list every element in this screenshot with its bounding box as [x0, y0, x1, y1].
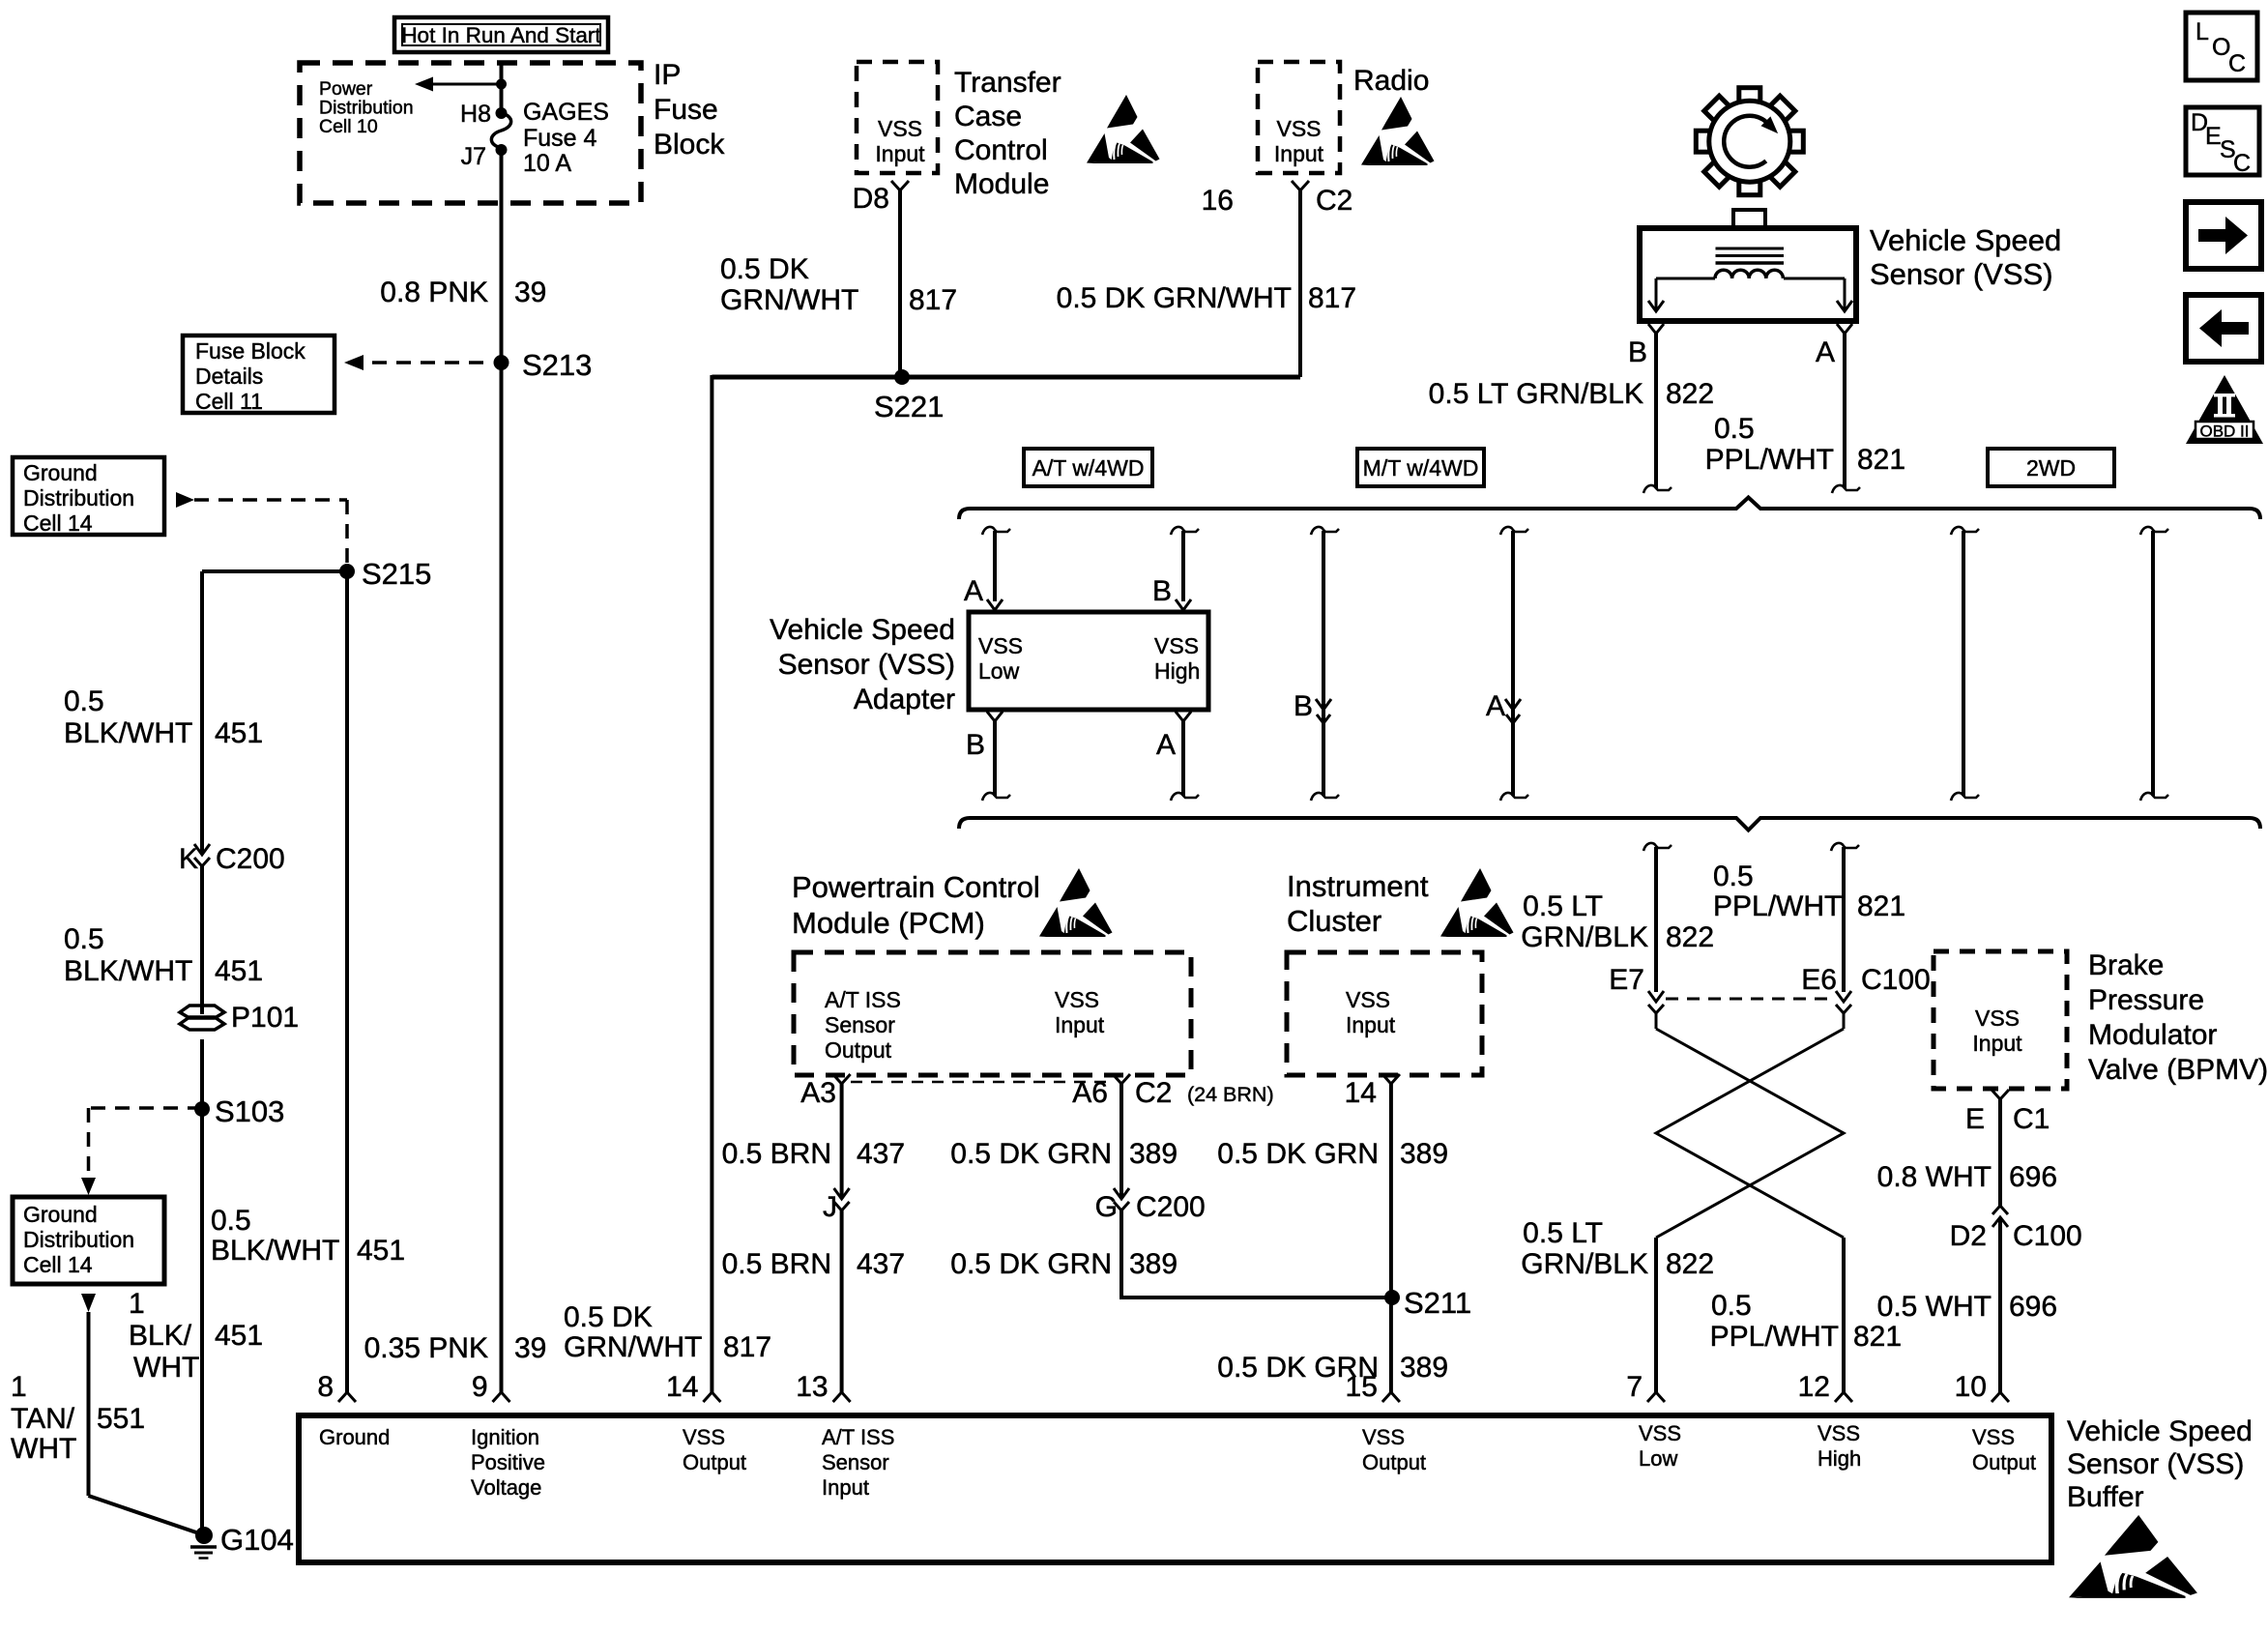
- svg-text:Input: Input: [822, 1475, 869, 1500]
- svg-text:Input: Input: [1055, 1012, 1105, 1037]
- svg-text:C2: C2: [1135, 1077, 1172, 1109]
- svg-text:WHT: WHT: [11, 1433, 76, 1465]
- svg-text:PPL/WHT: PPL/WHT: [1713, 890, 1842, 922]
- svg-text:Cell 14: Cell 14: [23, 510, 93, 536]
- svg-text:BLK/WHT: BLK/WHT: [64, 955, 192, 987]
- svg-text:Radio: Radio: [1353, 65, 1429, 97]
- svg-text:Cell 14: Cell 14: [23, 1252, 93, 1277]
- svg-text:Input: Input: [1346, 1012, 1396, 1037]
- svg-text:H8: H8: [460, 101, 491, 128]
- svg-text:14: 14: [1345, 1077, 1377, 1109]
- svg-text:G: G: [1095, 1191, 1118, 1223]
- svg-text:437: 437: [857, 1138, 905, 1170]
- svg-text:451: 451: [357, 1235, 405, 1267]
- svg-text:WHT: WHT: [133, 1352, 199, 1384]
- svg-text:S221: S221: [874, 390, 944, 423]
- svg-text:VSS: VSS: [1154, 633, 1199, 658]
- svg-text:A: A: [1816, 336, 1835, 368]
- svg-text:0.5 DK GRN/WHT: 0.5 DK GRN/WHT: [1057, 282, 1292, 314]
- svg-text:0.5 DK: 0.5 DK: [720, 253, 809, 285]
- svg-text:389: 389: [1400, 1352, 1448, 1384]
- svg-text:Buffer: Buffer: [2067, 1481, 2144, 1513]
- svg-text:696: 696: [2009, 1161, 2057, 1193]
- svg-text:High: High: [1817, 1446, 1861, 1471]
- svg-text:0.5: 0.5: [211, 1205, 251, 1237]
- svg-text:0.35 PNK: 0.35 PNK: [364, 1332, 488, 1364]
- svg-text:Control: Control: [954, 134, 1048, 166]
- svg-text:E7: E7: [1609, 964, 1644, 996]
- svg-text:13: 13: [796, 1371, 828, 1403]
- svg-text:Sensor (VSS): Sensor (VSS): [1870, 257, 2053, 291]
- svg-text:BLK/WHT: BLK/WHT: [64, 717, 192, 749]
- svg-text:Pressure: Pressure: [2088, 984, 2204, 1016]
- svg-text:K: K: [179, 843, 198, 875]
- svg-text:Distribution: Distribution: [23, 1227, 134, 1252]
- svg-text:TAN/: TAN/: [11, 1403, 75, 1435]
- svg-text:PPL/WHT: PPL/WHT: [1705, 444, 1834, 476]
- svg-text:Ignition: Ignition: [471, 1425, 539, 1449]
- svg-text:BLK/: BLK/: [129, 1320, 192, 1352]
- svg-text:16: 16: [1202, 185, 1234, 217]
- svg-text:451: 451: [215, 1320, 263, 1352]
- svg-text:9: 9: [472, 1371, 488, 1403]
- svg-text:0.5 DK GRN: 0.5 DK GRN: [950, 1138, 1112, 1170]
- svg-text:L: L: [2195, 18, 2209, 45]
- svg-text:821: 821: [1857, 890, 1905, 922]
- svg-text:S211: S211: [1404, 1286, 1471, 1320]
- svg-text:0.5 DK GRN: 0.5 DK GRN: [1217, 1138, 1379, 1170]
- svg-text:A: A: [1486, 690, 1505, 722]
- svg-text:0.5 LT: 0.5 LT: [1523, 890, 1603, 922]
- svg-text:PPL/WHT: PPL/WHT: [1710, 1321, 1839, 1353]
- svg-text:C: C: [2228, 50, 2246, 77]
- svg-text:2WD: 2WD: [2026, 455, 2076, 481]
- svg-text:C200: C200: [216, 843, 285, 875]
- svg-text:M/T w/4WD: M/T w/4WD: [1363, 455, 1479, 481]
- svg-text:0.8 WHT: 0.8 WHT: [1877, 1161, 1992, 1193]
- svg-text:GRN/BLK: GRN/BLK: [1521, 921, 1648, 953]
- svg-text:C1: C1: [2013, 1103, 2050, 1135]
- svg-text:437: 437: [857, 1248, 905, 1280]
- svg-text:B: B: [966, 729, 985, 761]
- svg-text:A3: A3: [800, 1077, 836, 1109]
- svg-text:C100: C100: [2013, 1220, 2082, 1252]
- svg-text:Ground: Ground: [23, 1202, 98, 1227]
- svg-text:Input: Input: [875, 141, 925, 166]
- svg-text:0.5: 0.5: [64, 923, 104, 955]
- svg-text:C100: C100: [1861, 964, 1931, 996]
- svg-text:A/T ISS: A/T ISS: [822, 1425, 894, 1449]
- svg-text:451: 451: [215, 717, 263, 749]
- svg-text:822: 822: [1666, 378, 1714, 410]
- svg-text:VSS: VSS: [1972, 1425, 2015, 1449]
- svg-text:0.5 BRN: 0.5 BRN: [722, 1138, 831, 1170]
- svg-text:0.8 PNK: 0.8 PNK: [380, 277, 488, 308]
- svg-text:822: 822: [1666, 921, 1714, 953]
- svg-text:451: 451: [215, 955, 263, 987]
- svg-text:Output: Output: [683, 1450, 746, 1474]
- svg-text:A: A: [1156, 729, 1176, 761]
- svg-text:S103: S103: [215, 1094, 284, 1128]
- svg-text:10: 10: [1955, 1371, 1987, 1403]
- svg-text:0.5 DK: 0.5 DK: [564, 1301, 653, 1333]
- svg-text:IP: IP: [654, 59, 681, 91]
- svg-text:A/T w/4WD: A/T w/4WD: [1032, 455, 1145, 481]
- svg-text:Details: Details: [195, 364, 263, 389]
- svg-text:Low: Low: [1639, 1446, 1677, 1471]
- svg-text:VSS: VSS: [1817, 1421, 1860, 1445]
- svg-text:12: 12: [1798, 1371, 1830, 1403]
- svg-text:0.5 WHT: 0.5 WHT: [1877, 1291, 1992, 1323]
- svg-text:821: 821: [1853, 1321, 1902, 1353]
- svg-text:J7: J7: [461, 143, 486, 170]
- svg-text:Output: Output: [1362, 1450, 1426, 1474]
- svg-text:Ground: Ground: [23, 460, 98, 485]
- svg-text:7: 7: [1626, 1371, 1643, 1403]
- svg-text:B: B: [1152, 575, 1172, 607]
- svg-text:Cell 11: Cell 11: [195, 389, 263, 414]
- svg-text:696: 696: [2009, 1291, 2057, 1323]
- svg-text:Ground: Ground: [319, 1425, 390, 1449]
- svg-text:B: B: [1294, 690, 1313, 722]
- svg-text:0.5 LT GRN/BLK: 0.5 LT GRN/BLK: [1429, 378, 1643, 410]
- svg-text:0.5 LT: 0.5 LT: [1523, 1217, 1603, 1249]
- svg-text:1: 1: [11, 1371, 27, 1403]
- svg-text:C200: C200: [1136, 1191, 1206, 1223]
- svg-text:15: 15: [1346, 1371, 1378, 1403]
- svg-text:B: B: [1628, 336, 1647, 368]
- svg-text:Cluster: Cluster: [1287, 904, 1381, 938]
- svg-text:E6: E6: [1801, 964, 1837, 996]
- svg-text:1: 1: [129, 1288, 145, 1320]
- svg-text:Instrument: Instrument: [1287, 869, 1429, 903]
- svg-text:Input: Input: [1274, 141, 1324, 166]
- svg-text:Voltage: Voltage: [471, 1475, 541, 1500]
- svg-text:VSS: VSS: [1055, 987, 1099, 1012]
- svg-text:821: 821: [1857, 444, 1905, 476]
- svg-text:E: E: [1965, 1103, 1985, 1135]
- svg-text:0.5 DK GRN: 0.5 DK GRN: [950, 1248, 1112, 1280]
- svg-text:0.5: 0.5: [1711, 1290, 1752, 1322]
- svg-text:S215: S215: [362, 557, 431, 591]
- svg-text:G104: G104: [220, 1523, 294, 1557]
- svg-text:0.5 BRN: 0.5 BRN: [722, 1248, 831, 1280]
- svg-text:Hot In Run And Start: Hot In Run And Start: [401, 23, 601, 47]
- svg-text:Sensor: Sensor: [822, 1450, 889, 1474]
- svg-text:VSS: VSS: [1639, 1421, 1681, 1445]
- svg-text:Low: Low: [978, 658, 1020, 684]
- svg-text:817: 817: [723, 1331, 771, 1363]
- svg-text:817: 817: [1308, 282, 1356, 314]
- svg-text:VSS: VSS: [1362, 1425, 1405, 1449]
- svg-text:P101: P101: [231, 1002, 299, 1034]
- svg-text:Positive: Positive: [471, 1450, 545, 1474]
- svg-text:Vehicle Speed: Vehicle Speed: [770, 614, 955, 646]
- svg-text:GRN/WHT: GRN/WHT: [564, 1331, 702, 1363]
- svg-text:GAGES: GAGES: [523, 99, 609, 126]
- svg-text:A/T ISS: A/T ISS: [825, 987, 901, 1012]
- svg-text:Modulator: Modulator: [2088, 1019, 2217, 1051]
- svg-text:Transfer: Transfer: [954, 67, 1061, 99]
- svg-text:Input: Input: [1972, 1031, 2022, 1056]
- svg-text:C2: C2: [1316, 185, 1352, 217]
- svg-text:10 A: 10 A: [523, 150, 571, 177]
- svg-text:High: High: [1154, 658, 1200, 684]
- svg-text:GRN/BLK: GRN/BLK: [1521, 1248, 1648, 1280]
- svg-text:Module: Module: [954, 168, 1049, 200]
- svg-text:D8: D8: [853, 183, 889, 215]
- svg-text:14: 14: [666, 1371, 698, 1403]
- svg-text:Valve (BPMV): Valve (BPMV): [2088, 1054, 2268, 1086]
- svg-text:Module (PCM): Module (PCM): [792, 906, 985, 940]
- svg-text:J: J: [823, 1191, 837, 1223]
- svg-text:389: 389: [1400, 1138, 1448, 1170]
- svg-text:Fuse: Fuse: [654, 94, 718, 126]
- svg-text:Fuse Block: Fuse Block: [195, 338, 305, 364]
- svg-text:8: 8: [317, 1371, 334, 1403]
- svg-text:Vehicle Speed: Vehicle Speed: [2067, 1415, 2253, 1447]
- svg-text:VSS: VSS: [1346, 987, 1390, 1012]
- svg-text:39: 39: [514, 277, 546, 308]
- svg-text:Output: Output: [1972, 1450, 2036, 1474]
- svg-text:817: 817: [909, 284, 957, 316]
- svg-text:0.5: 0.5: [1713, 860, 1754, 892]
- svg-text:VSS: VSS: [1276, 116, 1321, 141]
- svg-text:VSS: VSS: [683, 1425, 725, 1449]
- svg-text:BLK/WHT: BLK/WHT: [211, 1235, 339, 1267]
- svg-text:Cell 10: Cell 10: [319, 116, 378, 137]
- svg-text:Distribution: Distribution: [23, 485, 134, 510]
- svg-text:Powertrain Control: Powertrain Control: [792, 870, 1040, 904]
- svg-text:389: 389: [1129, 1248, 1178, 1280]
- svg-text:(24 BRN): (24 BRN): [1187, 1083, 1274, 1106]
- svg-text:0.5: 0.5: [64, 685, 104, 717]
- svg-text:GRN/WHT: GRN/WHT: [720, 284, 858, 316]
- svg-text:551: 551: [97, 1403, 145, 1435]
- svg-text:Sensor (VSS): Sensor (VSS): [778, 649, 955, 681]
- svg-text:S213: S213: [522, 348, 592, 382]
- svg-text:Output: Output: [825, 1037, 892, 1063]
- svg-text:0.5: 0.5: [1714, 413, 1755, 445]
- svg-text:39: 39: [514, 1332, 546, 1364]
- svg-text:VSS: VSS: [878, 116, 922, 141]
- svg-text:Block: Block: [654, 129, 725, 160]
- svg-text:C: C: [2233, 150, 2251, 177]
- svg-text:Vehicle Speed: Vehicle Speed: [1870, 223, 2061, 257]
- svg-text:389: 389: [1129, 1138, 1178, 1170]
- svg-text:OBD II: OBD II: [2199, 423, 2249, 441]
- svg-text:VSS: VSS: [978, 633, 1023, 658]
- svg-text:D2: D2: [1950, 1220, 1987, 1252]
- svg-text:A: A: [964, 575, 983, 607]
- svg-text:822: 822: [1666, 1248, 1714, 1280]
- svg-text:Fuse 4: Fuse 4: [523, 125, 597, 152]
- svg-text:Sensor (VSS): Sensor (VSS): [2067, 1448, 2244, 1480]
- svg-text:VSS: VSS: [1975, 1006, 2020, 1031]
- svg-text:Brake: Brake: [2088, 949, 2164, 981]
- svg-text:Case: Case: [954, 101, 1022, 132]
- svg-text:Sensor: Sensor: [825, 1012, 895, 1037]
- svg-text:Adapter: Adapter: [854, 684, 955, 715]
- svg-text:A6: A6: [1072, 1077, 1108, 1109]
